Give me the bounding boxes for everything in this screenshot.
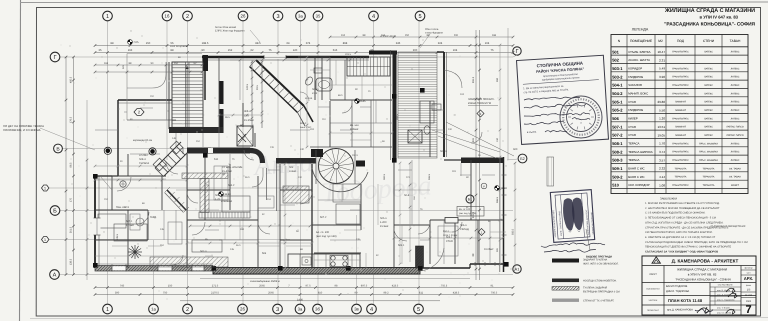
svg-text:ЛАМИНАТ: ЛАМИНАТ xyxy=(675,101,687,104)
west wing boundary lines xyxy=(126,54,128,121)
svg-text:1.70: 1.70 xyxy=(659,142,665,146)
svg-text:90: 90 xyxy=(202,49,205,52)
svg-text:ЗАБЕЛЕЖКИ: ЗАБЕЛЕЖКИ xyxy=(660,197,677,201)
svg-text:509-1: 509-1 xyxy=(612,166,623,171)
hatched interior wall L xyxy=(182,173,228,179)
grid bubble 35 top xyxy=(313,11,323,21)
svg-text:224: 224 xyxy=(438,42,443,45)
main staircase xyxy=(172,62,203,129)
svg-text:в УПИ IV 647 кв. 83: в УПИ IV 647 кв. 83 xyxy=(700,15,739,20)
svg-text:ДИМ.Я. ТОДОРОВА: ДИМ.Я. ТОДОРОВА xyxy=(666,290,690,293)
kitchen counter xyxy=(288,254,360,268)
grid bubble V left xyxy=(54,144,63,153)
grid bubble 3a bottom xyxy=(295,304,305,314)
svg-text:10.47: 10.47 xyxy=(657,50,665,54)
svg-text:ПРЪС. МАЗИЛКА: ПРЪС. МАЗИЛКА xyxy=(699,142,718,145)
top chain over building right xyxy=(330,36,513,38)
washbasin circle xyxy=(120,181,126,187)
svg-text:152: 152 xyxy=(174,62,179,65)
svg-text:ГАРД.: ГАРД. xyxy=(150,216,157,219)
bottom dimension chains xyxy=(95,287,513,289)
grid bubble 5 bottom xyxy=(414,304,424,314)
svg-text:Р: Р xyxy=(483,184,485,188)
svg-text:507-1: 507-1 xyxy=(612,124,623,129)
grid bubble B left xyxy=(50,206,60,216)
right dimension chains xyxy=(475,30,477,280)
spiral stair enclosure xyxy=(315,150,317,184)
svg-text:508-3: 508-3 xyxy=(612,158,623,163)
svg-text:555.5: 555.5 xyxy=(512,228,515,235)
svg-text:3.57: 3.57 xyxy=(659,158,665,162)
svg-text:811: 811 xyxy=(419,291,424,294)
bed rect bottom-left xyxy=(114,224,147,241)
svg-text:163: 163 xyxy=(104,62,109,65)
tree symbol xyxy=(128,245,142,259)
svg-text:ПРЪС. МАЗИЛКА: ПРЪС. МАЗИЛКА xyxy=(699,151,718,154)
svg-text:99.2: 99.2 xyxy=(383,291,389,294)
svg-text:ТЕРАКОТА: ТЕРАКОТА xyxy=(703,184,715,187)
svg-text:"РАЗСАДНИКА КОНЬОВИЦА" - СО: "РАЗСАДНИКА КОНЬОВИЦА" - СОФИЯ xyxy=(675,278,730,282)
svg-text:ЛАТЕКС ГИПСО: ЛАТЕКС ГИПСО xyxy=(726,134,744,137)
grid bubble 1a bottom xyxy=(149,304,159,314)
svg-text:508-2: 508-2 xyxy=(612,149,623,154)
svg-text:ЛАМИНАТ: ЛАМИНАТ xyxy=(675,126,687,129)
svg-text:ЛАТЕКС: ЛАТЕКС xyxy=(704,76,713,79)
inner dimension chains xyxy=(251,62,253,128)
svg-text:508-1: 508-1 xyxy=(612,141,623,146)
vertical grid axes xyxy=(107,21,109,305)
svg-text:2: 2 xyxy=(186,14,189,20)
rooms mid-top partitions xyxy=(344,60,346,100)
svg-text:810: 810 xyxy=(318,291,323,294)
svg-text:ЛАТЕКС: ЛАТЕКС xyxy=(704,109,713,112)
permit stamp box xyxy=(517,55,609,144)
annotation leader lines to B2 xyxy=(446,122,514,156)
horizontal grid axes xyxy=(56,56,513,58)
east wall upper part xyxy=(443,52,445,157)
svg-text:ЛАТЕКС: ЛАТЕКС xyxy=(731,142,740,145)
svg-text:ОБЕКТ: ОБЕКТ xyxy=(649,273,657,276)
svg-text:ЖИЛИЩНА СГРАДА С МАГАЗИНИ: ЖИЛИЩНА СГРАДА С МАГАЗИНИ xyxy=(664,8,755,14)
svg-text:ЛАТЕКС: ЛАТЕКС xyxy=(704,92,713,95)
extra furniture bottom-left xyxy=(136,218,144,226)
outer wall west xyxy=(94,176,96,268)
grid bubble A left xyxy=(50,270,60,280)
svg-text:75: 75 xyxy=(269,49,272,52)
svg-text:19.05: 19.05 xyxy=(657,133,665,137)
svg-text:БАНЯ С WC: БАНЯ С WC xyxy=(628,166,644,170)
svg-text:245: 245 xyxy=(396,42,401,45)
svg-text:СТЕНИ: СТЕНИ xyxy=(703,39,715,43)
grid bubble 3a top xyxy=(296,11,306,21)
svg-text:Г: Г xyxy=(515,49,518,55)
svg-text:12.5м2: 12.5м2 xyxy=(126,224,135,227)
legend bar 1 solid xyxy=(552,259,579,263)
hex marker left 2 xyxy=(42,237,49,243)
svg-text:750: 750 xyxy=(163,291,168,294)
svg-text:С 1 В КАМЕН ВЪВ ПОДОВИТЕ СМЕСИ: С 1 В КАМЕН ВЪВ ПОДОВИТЕ СМЕСИ ОКАЧЕНИ. xyxy=(645,212,706,215)
svg-text:555.5: 555.5 xyxy=(496,196,499,203)
north wall window gap xyxy=(264,55,286,59)
svg-text:2565: 2565 xyxy=(259,284,265,287)
svg-text:ЛАТЕКС: ЛАТЕКС xyxy=(704,134,713,137)
svg-text:26: 26 xyxy=(241,14,246,19)
svg-text:ЛАТЕКС: ЛАТЕКС xyxy=(704,67,713,70)
extra left dim chains xyxy=(95,64,202,66)
svg-text:1. ВСИЧКИ ВЪТР РАЗМЕРИ НА СТЕН: 1. ВСИЧКИ ВЪТР РАЗМЕРИ НА СТЕНИТЕ СА ОТ … xyxy=(645,202,720,205)
svg-text:ЛАТЕКС: ЛАТЕКС xyxy=(704,101,713,104)
svg-text:в УПИ IV 647 КВ. 83: в УПИ IV 647 КВ. 83 xyxy=(688,273,717,277)
svg-text:снегозадържане 29/69 м: снегозадържане 29/69 м xyxy=(250,280,280,283)
svg-text:ПЕНОИЗОЛАЦИЯ ОТ ДВЕТЕ ИМ СТРАН: ПЕНОИЗОЛАЦИЯ ОТ ДВЕТЕ ИМ СТРАНИ С ОКАЧВА… xyxy=(645,246,731,249)
corridor elbow xyxy=(250,151,263,164)
svg-text:АРХ.: АРХ. xyxy=(744,276,754,281)
svg-text:510: 510 xyxy=(214,158,219,161)
svg-text:ЛАТЕКС: ЛАТЕКС xyxy=(731,67,740,70)
svg-text:423.5: 423.5 xyxy=(392,284,399,287)
bath fixtures upper-right rooms xyxy=(420,101,434,123)
svg-text:2.32: 2.32 xyxy=(312,92,318,95)
svg-text:152: 152 xyxy=(228,49,233,52)
svg-text:505-2: 505-2 xyxy=(612,108,623,113)
grid bubble 1 bottom xyxy=(103,304,113,314)
svg-text:Бл. сп. 100: Бл. сп. 100 xyxy=(316,231,330,234)
svg-text:485.5: 485.5 xyxy=(70,76,73,83)
svg-text:198.5: 198.5 xyxy=(202,42,209,45)
landing lines below stair xyxy=(175,133,177,147)
svg-text:ЖИЛИЩНА СГРАДА С МАГАЗИНИ: ЖИЛИЩНА СГРАДА С МАГАЗИНИ xyxy=(677,268,727,272)
top dimension chain 2 xyxy=(95,52,513,54)
left extra vertical line xyxy=(86,100,88,280)
svg-text:СТК: СТК xyxy=(244,115,249,118)
svg-text:96.5: 96.5 xyxy=(225,116,230,119)
svg-text:ЛАМИНАТ: ЛАМИНАТ xyxy=(675,109,687,112)
south wall west part with windows xyxy=(95,266,213,272)
svg-text:керемиди 85 см: керемиди 85 см xyxy=(133,139,152,142)
svg-text:506: 506 xyxy=(612,116,619,121)
svg-text:3: 3 xyxy=(276,307,279,313)
svg-text:135: 135 xyxy=(160,228,165,231)
svg-text:120: 120 xyxy=(293,49,298,52)
grid bubble B1 mid xyxy=(466,195,474,203)
grid bubble 5 top xyxy=(415,11,425,21)
svg-text:ЛАТЕКС: ЛАТЕКС xyxy=(704,51,713,54)
svg-text:240.5: 240.5 xyxy=(246,83,249,90)
svg-text:868: 868 xyxy=(343,42,348,45)
svg-text:3.57М2: 3.57М2 xyxy=(139,154,148,157)
svg-text:ОК. ТАВАН: ОК. ТАВАН xyxy=(729,176,741,179)
svg-text:16: 16 xyxy=(165,14,170,19)
svg-text:509-1: 509-1 xyxy=(312,88,319,91)
svg-text:4.14: 4.14 xyxy=(659,175,665,179)
svg-text:ЛАТЕКС: ЛАТЕКС xyxy=(731,51,740,54)
svg-text:1/5: 1/5 xyxy=(747,289,751,292)
mid dim chain horizontal xyxy=(394,237,503,239)
stair bottom dark band xyxy=(169,127,223,133)
svg-text:ТЕРАКОТА: ТЕРАКОТА xyxy=(675,176,687,179)
svg-text:инж. Т. Илиев: инж. Т. Илиев xyxy=(717,307,730,310)
svg-text:ГРАНИТОГРЕС: ГРАНИТОГРЕС xyxy=(672,92,689,95)
svg-text:504-1: 504-1 xyxy=(440,150,447,153)
svg-text:ТЕРАСА ШИРОКА: ТЕРАСА ШИРОКА xyxy=(628,150,653,154)
svg-text:203.5: 203.5 xyxy=(345,53,352,56)
svg-text:3. ПЕТООБХВАЩАНЕ ОТ СМЕСИ ПЕНО: 3. ПЕТООБХВАЩАНЕ ОТ СМЕСИ ПЕНОИЗОЛАЦИЯ -… xyxy=(645,217,716,220)
svg-text:СТАЯ: СТАЯ xyxy=(628,125,636,129)
svg-text:15.9м2: 15.9м2 xyxy=(380,225,389,228)
svg-text:"РАЗСАДНИКА КОНЬОВИЦА"- СОФИЯ: "РАЗСАДНИКА КОНЬОВИЦА"- СОФИЯ xyxy=(664,22,755,28)
svg-text:ЛАМИНАТ: ЛАМИНАТ xyxy=(675,134,687,137)
svg-text:ТЕРАКОТА: ТЕРАКОТА xyxy=(703,176,715,179)
svg-text:163: 163 xyxy=(128,49,133,52)
svg-text:271.5: 271.5 xyxy=(212,284,219,287)
svg-text:ЛАТЕКС: ЛАТЕКС xyxy=(704,126,713,129)
extra interior dim chains xyxy=(95,165,187,167)
room schedule table xyxy=(611,35,748,194)
svg-text:104: 104 xyxy=(453,49,458,52)
svg-text:150: 150 xyxy=(146,42,151,45)
svg-text:ПОЛОЖЕНИЕ, И СЛ ФИРМА: ПОЛОЖЕНИЕ, И СЛ ФИРМА xyxy=(3,128,41,132)
hex marker left 1 xyxy=(42,185,49,191)
svg-text:СТАЯ: СТАЯ xyxy=(628,133,636,137)
svg-text:104: 104 xyxy=(496,137,499,142)
svg-text:280.5: 280.5 xyxy=(396,113,399,120)
stair corridor rounded corner xyxy=(127,62,166,88)
architect stamp xyxy=(550,190,595,243)
svg-text:8.45: 8.45 xyxy=(360,100,366,103)
svg-text:1.08: 1.08 xyxy=(659,183,665,187)
svg-text:ЧАКАЛНЯ: ЧАКАЛНЯ xyxy=(628,83,642,87)
svg-text:176.5: 176.5 xyxy=(70,116,73,123)
scan speckles xyxy=(61,30,507,299)
svg-text:(вис под тух 139): (вис под тух 139) xyxy=(459,212,477,215)
railing steps band xyxy=(199,212,250,218)
svg-text:ПЛАН КОТА 11.68: ПЛАН КОТА 11.68 xyxy=(668,298,703,303)
svg-text:МАНИП. БОКС: МАНИП. БОКС xyxy=(628,91,648,95)
svg-text:ГАРДЕРОБ: ГАРДЕРОБ xyxy=(628,108,643,112)
grid bubble 36 bottom xyxy=(313,304,323,314)
svg-text:184: 184 xyxy=(240,228,245,231)
west wall window xyxy=(94,218,101,235)
outer wall north-west block xyxy=(118,99,172,101)
elevator shaft xyxy=(237,126,253,146)
title block label column xyxy=(663,266,665,316)
svg-text:согл пл кровли: согл пл кровли xyxy=(170,45,188,48)
stair east wall black segments xyxy=(219,81,224,104)
svg-text:1400: 1400 xyxy=(297,299,303,302)
south wall hatched band xyxy=(213,268,420,275)
svg-text:507-2: 507-2 xyxy=(320,216,327,219)
svg-text:ЛАМПЕРИЯ ПРОФИЛ -: ЛАМПЕРИЯ ПРОФИЛ - xyxy=(468,98,495,101)
diagonal bay bathroom xyxy=(304,76,314,87)
svg-text:в съотв.: в съотв. xyxy=(527,130,537,134)
svg-text:ГРАНИТОГРЕС: ГРАНИТОГРЕС xyxy=(672,117,689,120)
svg-text:26: 26 xyxy=(240,307,245,312)
svg-text:ЛАТЕКС: ЛАТЕКС xyxy=(731,117,740,120)
svg-text:509-1: 509-1 xyxy=(398,244,405,247)
grid bubble A1 right xyxy=(513,265,521,273)
svg-text:96.5: 96.5 xyxy=(236,244,241,247)
svg-text:506: 506 xyxy=(262,252,267,255)
svg-text:88: 88 xyxy=(171,49,174,52)
svg-text:ТЕРАСА: ТЕРАСА xyxy=(628,158,639,162)
svg-text:2003: 2003 xyxy=(746,300,752,303)
svg-text:ПРОЕКТАНТ: ПРОЕКТАНТ xyxy=(647,309,660,312)
diagonal partition wall xyxy=(256,60,304,106)
svg-text:11.68: 11.68 xyxy=(224,193,231,196)
svg-text:504-2: 504-2 xyxy=(612,91,623,96)
svg-text:А: А xyxy=(53,273,57,279)
svg-text:11.68: 11.68 xyxy=(500,187,507,190)
legend bar 2 solid xyxy=(552,279,579,283)
door swing arcs xyxy=(117,177,131,191)
svg-text:96.5: 96.5 xyxy=(245,176,250,179)
elevation markers xyxy=(355,99,360,104)
grid bubble 4 bottom xyxy=(367,304,377,314)
svg-text:СКЛ. КОРИДОР: СКЛ. КОРИДОР xyxy=(628,183,649,187)
svg-text:част: част xyxy=(746,272,750,275)
svg-text:ВЪТРЕШНИ ПРЕГРАДНИ 4 СМ: ВЪТРЕШНИ ПРЕГРАДНИ 4 СМ xyxy=(583,291,620,294)
svg-text:138.5: 138.5 xyxy=(70,258,73,265)
svg-text:Вх. от 100: Вх. от 100 xyxy=(459,208,471,211)
secondary thin lines xyxy=(124,111,127,113)
svg-text:СЪГЛАСНИЦИ ПОДСВОБОДНИ СМЕСИ П: СЪГЛАСНИЦИ ПОДСВОБОДНИ СМЕСИ ПРЕГРАДИ, К… xyxy=(645,241,748,244)
svg-text:1.200: 1.200 xyxy=(380,221,387,224)
svg-text:280: 280 xyxy=(496,77,499,82)
svg-text:ГРАНИТОГРЕС: ГРАНИТОГРЕС xyxy=(672,51,689,54)
svg-text:арх.Д. КАМЕНАРОВА: арх.Д. КАМЕНАРОВА xyxy=(667,309,693,312)
svg-text:ВЪЗЛОЖИТЕЛ: ВЪЗЛОЖИТЕЛ xyxy=(646,288,660,291)
vertical hatched bar below B2 xyxy=(547,157,554,186)
svg-text:Вх. хол: Вх. хол xyxy=(350,124,359,127)
svg-text:ТУХЛЕНА ЗИДАРИЯ: ТУХЛЕНА ЗИДАРИЯ xyxy=(583,287,607,290)
svg-text:1: 1 xyxy=(44,187,46,191)
svg-text:ГРАНИТОГРЕС: ГРАНИТОГРЕС xyxy=(672,142,689,145)
dark wall stub near entrance xyxy=(416,246,424,268)
svg-text:КОРИДОР: КОРИДОР xyxy=(628,66,642,70)
svg-text:5: 5 xyxy=(417,307,420,313)
svg-text:146: 146 xyxy=(172,137,177,140)
svg-text:СЪГЛАСУВАЛ ЗА "ХХХ БИЛДИНГ" ОО: СЪГЛАСУВАЛ ЗА "ХХХ БИЛДИНГ" ООД -ИВАН ТО… xyxy=(645,251,718,254)
round seal xyxy=(560,96,602,138)
svg-text:507-1: 507-1 xyxy=(126,220,133,223)
svg-text:М2: М2 xyxy=(658,39,663,43)
svg-text:ЖИЛ. ЖЕЛ 4 СМ ЗВУКОИЗОЛ.: ЖИЛ. ЖЕЛ 4 СМ ЗВУКОИЗОЛ. xyxy=(583,263,619,266)
svg-text:Б1: Б1 xyxy=(468,197,472,201)
interior partitions xyxy=(127,154,129,176)
top dimension chain 1 xyxy=(95,45,513,47)
grid bubble 3v bottom xyxy=(352,304,362,314)
svg-text:515: 515 xyxy=(333,49,338,52)
svg-text:ГРАНИТОГРЕС: ГРАНИТОГРЕС xyxy=(672,84,689,87)
spiral stair xyxy=(319,149,354,184)
svg-text:СТАЯ: СТАЯ xyxy=(446,240,453,243)
svg-text:2.31: 2.31 xyxy=(659,58,665,62)
svg-text:ТЕРАСА: ТЕРАСА xyxy=(139,162,149,165)
svg-text:ЛАТЕКС: ЛАТЕКС xyxy=(731,101,740,104)
top black wall bar xyxy=(369,51,397,55)
svg-text:ГАРДЕРОБ: ГАРДЕРОБ xyxy=(628,75,643,79)
svg-text:204.5: 204.5 xyxy=(352,154,358,157)
title block frame xyxy=(642,256,756,315)
sink xyxy=(302,257,311,265)
grid bubble 3 top xyxy=(273,11,283,21)
svg-text:Пом. АВСЗ: Пом. АВСЗ xyxy=(116,206,129,209)
svg-text:ЛАТЕКС: ЛАТЕКС xyxy=(731,76,740,79)
svg-text:ЛАТЕКС: ЛАТЕКС xyxy=(731,84,740,87)
svg-text:150: 150 xyxy=(168,284,173,287)
svg-text:301.5: 301.5 xyxy=(70,226,73,233)
svg-text:300: 300 xyxy=(115,291,120,294)
svg-text:755.3: 755.3 xyxy=(441,284,448,287)
svg-text:СМ ПЕНОПОЛИСТИРОЛ, КАТО ПО ГОР: СМ ПЕНОПОЛИСТИРОЛ, КАТО ПО ГОРНАТА КОНТР… xyxy=(645,231,713,234)
plan right boundary line xyxy=(507,28,509,160)
balcony railing hatch bottom-left xyxy=(150,257,228,267)
grid bubble G left xyxy=(50,52,60,62)
svg-text:507-1: 507-1 xyxy=(200,250,207,253)
svg-text:М 1:50: М 1:50 xyxy=(745,294,753,297)
svg-text:505-1: 505-1 xyxy=(446,236,453,239)
diagonal steps small xyxy=(155,168,164,177)
svg-text:СТЪЛБ. АТЕЛИЕ: СТЪЛБ. АТЕЛИЕ xyxy=(222,166,243,169)
vertical spine wall xyxy=(393,51,397,161)
terrace hatch band east of spine xyxy=(398,52,437,158)
svg-text:ЛЕГЕНДА: ЛЕГЕНДА xyxy=(632,28,649,32)
SE vertical dim line xyxy=(514,163,516,270)
svg-text:(вис под тух 139): (вис под тух 139) xyxy=(316,235,337,238)
svg-text:86.5: 86.5 xyxy=(70,162,73,167)
sheet left edge line xyxy=(20,0,21,321)
svg-text:3б: 3б xyxy=(315,307,320,312)
corridor dark band xyxy=(187,148,250,154)
svg-text:Д. КАМЕНАРОВА - АРХИТЕКТ: Д. КАМЕНАРОВА - АРХИТЕКТ xyxy=(672,259,739,264)
svg-text:2. НАСТИЛКИТЕ И ВСИЧКИ ПОМЕЩЕН: 2. НАСТИЛКИТЕ И ВСИЧКИ ПОМЕЩЕНИЯ ДА СЕ И… xyxy=(645,207,720,210)
svg-text:90.5: 90.5 xyxy=(256,85,259,90)
svg-text:509-2: 509-2 xyxy=(300,122,307,125)
svg-text:ОК. ТАВАН: ОК. ТАВАН xyxy=(729,167,741,170)
stair west wall xyxy=(168,62,170,129)
svg-text:ПОМЕЩЕНИЕ: ПОМЕЩЕНИЕ xyxy=(630,39,653,43)
svg-text:ЛАТЕКС: ЛАТЕКС xyxy=(704,84,713,87)
title block signatures xyxy=(695,309,713,312)
sheet top edge line xyxy=(20,1,768,4)
svg-text:3в: 3в xyxy=(354,307,359,312)
more interior clutter lines xyxy=(330,84,392,86)
svg-text:200: 200 xyxy=(413,49,418,52)
svg-text:ПРЪС. МАЗИЛКА: ПРЪС. МАЗИЛКА xyxy=(699,159,718,162)
svg-text:5.49: 5.49 xyxy=(659,67,665,71)
window tick marks east wall xyxy=(502,174,507,176)
svg-text:2170.5: 2170.5 xyxy=(211,291,219,294)
svg-text:5.50: 5.50 xyxy=(659,108,665,112)
svg-text:503-2: 503-2 xyxy=(612,74,623,79)
legend bar 4 gray xyxy=(552,299,579,302)
svg-text:ТАВАН: ТАВАН xyxy=(730,39,741,43)
svg-text:СТЕНИ ОТ ТХ 4 ЧЕТВЪРТ.: СТЕНИ ОТ ТХ 4 ЧЕТВЪРТ. xyxy=(583,300,615,303)
svg-text:ВАСИЛ ТОДОРОВ: ВАСИЛ ТОДОРОВ xyxy=(666,285,688,288)
svg-text:502: 502 xyxy=(612,58,619,63)
svg-text:510: 510 xyxy=(612,183,619,188)
grid bubble 3 bottom xyxy=(273,304,283,314)
svg-text:88: 88 xyxy=(111,42,114,45)
svg-text:СТАЯ: СТАЯ xyxy=(628,100,636,104)
svg-text:СЪГЛАСУВАНЕ ОБЕЗЩЕТЕНИЕ: СЪГЛАСУВАНЕ ОБЕЗЩЕТЕНИЕ xyxy=(711,225,746,228)
svg-text:29.86: 29.86 xyxy=(657,100,665,104)
svg-text:ПОД: ПОД xyxy=(677,39,685,43)
corridor band window gap xyxy=(208,148,213,153)
svg-text:600: 600 xyxy=(513,148,518,151)
svg-text:1.70: 1.70 xyxy=(215,198,221,201)
svg-text:АС: АС xyxy=(240,124,244,127)
